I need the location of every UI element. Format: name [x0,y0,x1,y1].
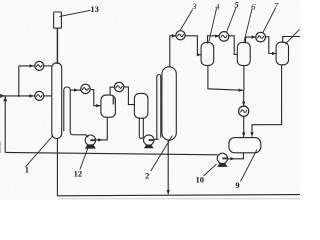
arrow tube A to exchanger a [74,88,78,91]
wire leader label 12 [80,148,88,169]
wire exchanger 7 to vessel 8 [265,37,276,54]
scan smudge inside drum A [112,97,114,105]
arrow down into drum 9 [242,133,245,137]
wire exchanger 5 to drum 6 [229,36,238,55]
arrow into drum A [96,104,100,107]
wire exchanger 3 to drum 4 [185,36,201,55]
wire feed line lower [1,95,36,97]
wire vessel 8 riser [283,37,300,44]
wire leader label 9 [241,150,258,182]
wire drum A top to exchanger b [110,87,114,95]
arrow pump 10 discharge [230,157,234,160]
drum 4 [201,43,214,66]
arrow feed left edge [0,94,4,98]
junction dot feed split [18,95,20,97]
wire leader label 4 [209,9,217,43]
arrow column 2 bottoms down [167,190,170,194]
wire leader label 3 [180,10,193,31]
svg-text:10: 10 [196,175,205,185]
wire branch riser [18,66,20,96]
heat exchanger above drum 9 [239,106,249,116]
column 1 [52,63,62,139]
vessel 8 [276,42,288,65]
heat exchanger d (lower feed) [35,91,44,100]
wire tube A to exchanger a [70,89,81,91]
svg-text:12: 12 [74,168,83,178]
heat exchanger a (col1 overhead) [81,84,90,93]
wire leader label 7 [263,8,276,33]
wire leader label 2 [151,136,173,172]
wire drum 6 top to exchanger 7 [246,37,256,43]
wire drum 4 bottoms [208,65,244,90]
wire exchanger c to column 1 [44,65,52,67]
arrow pump 12 discharge [98,138,102,141]
wire column 1 bottoms [56,138,58,195]
wire feed line upper [19,65,36,67]
heat exchanger b [115,82,124,91]
wire leader label 1 [25,136,52,167]
wire leader to label 8 (off image) [285,29,299,44]
pump 12 feet [85,144,96,148]
heat exchanger 7 [256,32,266,42]
svg-text:1: 1 [25,165,29,175]
wire leader label 6 [244,9,252,43]
scan artifacts [0,141,300,199]
column 2 [162,67,176,140]
pump 10 feet [217,163,228,167]
wire vessel 8 bottoms to drum 9 [252,65,282,137]
wire pump 12 to drum A bottom [95,117,107,140]
wire left riser [4,96,6,152]
svg-text:2: 2 [145,170,149,180]
arrow into exchanger c [30,64,34,67]
column 2 side tube [157,75,161,139]
heat exchanger 5 [219,32,229,42]
heat exchanger c (upper feed) [35,61,44,70]
svg-text:4: 4 [215,2,220,12]
drum 6 [237,43,250,66]
drum 9 (horizontal tank) [229,138,261,153]
pump 12 [85,135,95,145]
wire tube A bottom to pump 12 [70,132,88,137]
wire column 2 bottoms [167,140,169,194]
arrow into exchanger d [30,94,34,97]
drum A [101,95,116,117]
pump 10 [217,153,227,163]
wire drum 4 top to exchanger 5 [208,36,220,44]
arrow drum4 bottoms junction [239,89,243,92]
drum B [134,93,148,118]
wire leader to label 13 [60,10,91,16]
wire exchanger a to drum A [90,90,101,106]
wire leader label 5 [227,8,236,33]
side tube A on column 1 [64,87,70,132]
wire long middle pipe [5,152,217,154]
vessel 13 (small top condenser box) [54,12,62,28]
pump 11 [144,135,154,145]
wire exchanger d to column 1 [44,95,52,97]
arrow down into exchanger 9 [242,102,245,106]
wire leader label 10 [204,164,217,176]
wire pipe 13 to column 1 top [56,28,58,64]
arrow into drum 4 [197,53,201,56]
svg-text:9: 9 [235,180,239,190]
wire pump 10 to drum 9 [228,153,244,159]
wire drum 6 bottoms [243,65,245,90]
arrow into vessel 8 [272,52,276,55]
wire exchanger b to drum B [124,87,135,105]
svg-text:6: 6 [251,1,256,11]
wire column 2 riser to exchanger 3 [170,36,176,68]
arrow into exchanger 5 [215,34,219,37]
arrow vessel8 line down into drum 9 [250,132,253,136]
wire down to exchanger 9 [243,90,245,106]
wire pump 11 to column 2 side tube [154,138,159,140]
svg-text:13: 13 [90,4,99,14]
svg-text:3: 3 [191,1,196,11]
arrow into exchanger 7 [252,35,256,38]
drum B bottom tube [139,118,143,138]
pump 11 feet [144,145,154,149]
arrow up into feed junction [3,97,7,102]
wire long bottom pipe [57,195,300,196]
wire exchanger to drum 9 [243,116,245,137]
arrow into exchanger 3 [172,34,176,37]
heat exchanger 3 [176,31,185,40]
